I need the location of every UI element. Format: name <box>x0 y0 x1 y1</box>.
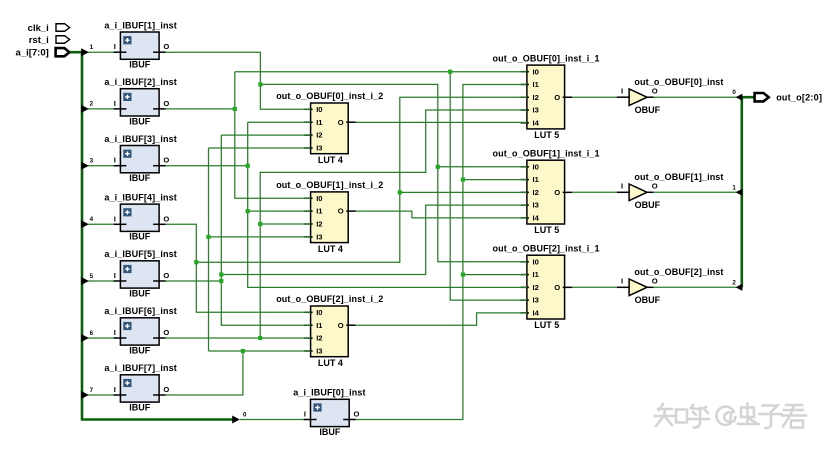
svg-text:1: 1 <box>90 44 94 51</box>
wire IBUF[0] to LUT5#3.I1 <box>463 274 527 276</box>
svg-text:out_o_OBUF[0]_inst_i_2: out_o_OBUF[0]_inst_i_2 <box>276 91 383 101</box>
net LUT5#3.O to OBUF[2] input <box>572 286 617 288</box>
svg-text:O: O <box>554 93 560 102</box>
buffer a_i_IBUF[2]_inst (IBUF) <box>104 77 176 126</box>
svg-text:0: 0 <box>732 89 736 96</box>
bus tap arrow bit 3 <box>81 162 89 170</box>
wire IBUF[6] trunk <box>260 110 527 338</box>
watermark zhihu @chongzijun (light gray) <box>655 404 806 429</box>
svg-text:I3: I3 <box>316 144 322 153</box>
buffer a_i_IBUF[4]_inst (IBUF) <box>104 193 176 242</box>
wire IBUF[5] trunk <box>221 135 310 325</box>
wire IBUF[2] trunk <box>235 72 311 199</box>
wire a_i bit 1 branch to IBUF input <box>82 51 116 53</box>
buffer a_i_IBUF[1]_inst (IBUF) <box>104 20 176 69</box>
svg-text:IBUF: IBUF <box>129 232 150 242</box>
junction IBUF[5] branch <box>219 272 223 276</box>
svg-text:2: 2 <box>732 279 736 286</box>
svg-text:O: O <box>652 87 658 96</box>
svg-text:O: O <box>554 188 560 197</box>
wire IBUF[1] to LUT5#2.I0 <box>438 166 527 168</box>
svg-text:LUT 5: LUT 5 <box>534 225 559 235</box>
buffer out_o_OBUF[1]_inst (OBUF) <box>617 172 724 210</box>
svg-text:3: 3 <box>90 158 94 165</box>
svg-text:I1: I1 <box>316 207 323 216</box>
svg-text:out_o_OBUF[0]_inst_i_1: out_o_OBUF[0]_inst_i_1 <box>493 53 600 63</box>
svg-text:IBUF: IBUF <box>129 345 150 355</box>
svg-text:LUT 5: LUT 5 <box>534 320 559 330</box>
svg-text:O: O <box>354 410 360 419</box>
svg-text:OBUF: OBUF <box>635 105 661 115</box>
svg-text:out_o_OBUF[1]_inst: out_o_OBUF[1]_inst <box>634 172 723 182</box>
net a_i_IBUF[2] <box>166 72 527 300</box>
svg-text:2: 2 <box>90 101 94 108</box>
bus tap arrow bit 2 <box>81 105 89 113</box>
junction IBUF[2] at I0 row <box>448 70 452 74</box>
bus merge arrow bit 0 <box>736 94 743 101</box>
net a_i_IBUF[4] <box>166 97 527 312</box>
svg-text:IBUF: IBUF <box>129 173 150 183</box>
wire a_i bit 5 branch to IBUF input <box>82 280 116 282</box>
svg-text:I: I <box>621 182 623 191</box>
svg-text:I2: I2 <box>533 283 539 292</box>
wire a_i bit 2 branch to IBUF input <box>82 108 116 110</box>
svg-text:a_i_IBUF[6]_inst: a_i_IBUF[6]_inst <box>104 306 176 316</box>
junction IBUF[6] source <box>258 336 262 340</box>
wire a_i bus trunk (bold) <box>70 52 234 419</box>
wire IBUF[5] to LUT4#1.I2 <box>221 134 310 136</box>
svg-text:O: O <box>652 182 658 191</box>
svg-text:O: O <box>338 118 344 127</box>
svg-text:a_i_IBUF[7]_inst: a_i_IBUF[7]_inst <box>104 363 176 373</box>
junction IBUF[2] source <box>233 107 237 111</box>
wire IBUF[4] to LUT5#2.I2 <box>400 191 527 193</box>
svg-text:a_i_IBUF[3]_inst: a_i_IBUF[3]_inst <box>104 134 176 144</box>
buffer a_i_IBUF[6]_inst (IBUF) <box>104 306 176 355</box>
svg-text:I: I <box>304 410 306 419</box>
input port a_i[7:0] <box>16 48 70 59</box>
svg-text:I0: I0 <box>533 257 539 266</box>
svg-text:I: I <box>621 87 623 96</box>
svg-text:IBUF: IBUF <box>129 288 150 298</box>
svg-text:out_o_OBUF[1]_inst_i_1: out_o_OBUF[1]_inst_i_1 <box>493 148 600 158</box>
svg-text:I0: I0 <box>533 67 539 76</box>
wire out_o bus trunk (bold) <box>740 97 743 287</box>
svg-text:OBUF: OBUF <box>635 200 661 210</box>
svg-text:O: O <box>652 277 658 286</box>
junction IBUF[0] at LUT5#3.I1 <box>461 272 465 276</box>
bus tap arrow bit 7 <box>81 391 89 399</box>
wire out_o bus to port (bold) <box>741 96 755 99</box>
wire IBUF[1].O to corner <box>166 52 311 109</box>
wire IBUF[7] to LUT4#2.I3 <box>209 236 311 238</box>
svg-text:0: 0 <box>243 412 247 419</box>
wire IBUF[7] to LUT4#1.I3 <box>209 147 311 149</box>
svg-text:O: O <box>338 207 344 216</box>
svg-text:I0: I0 <box>316 194 322 203</box>
svg-text:O: O <box>163 385 169 394</box>
LUT out_o_OBUF[1]_inst_i_2 (LUT 4) <box>276 180 383 254</box>
wire a_i bit 3 branch to IBUF input <box>82 165 116 167</box>
bus tap arrow bit 0 <box>232 416 240 424</box>
junction IBUF[7] riser join <box>241 349 245 353</box>
net OBUF[2].O to out_o bus <box>654 286 742 288</box>
junction IBUF[7] at LUT4#2.I3 <box>206 235 210 239</box>
svg-text:I1: I1 <box>533 80 540 89</box>
svg-text:IBUF: IBUF <box>129 402 150 412</box>
svg-text:a_i_IBUF[5]_inst: a_i_IBUF[5]_inst <box>104 249 176 259</box>
svg-text:I0: I0 <box>316 308 322 317</box>
svg-text:LUT 5: LUT 5 <box>534 130 559 140</box>
net a_i_IBUF[5] <box>166 135 527 325</box>
wire IBUF[6] to LUT4#2.I2 <box>260 223 310 225</box>
svg-text:6: 6 <box>90 330 94 337</box>
buffer out_o_OBUF[2]_inst (OBUF) <box>617 267 724 305</box>
svg-text:I: I <box>114 156 116 165</box>
bus merge arrow bit 1 <box>736 189 743 196</box>
buffer a_i_IBUF[7]_inst (IBUF) <box>104 363 176 412</box>
svg-text:O: O <box>163 156 169 165</box>
svg-text:LUT 4: LUT 4 <box>318 155 343 165</box>
wire IBUF[3] to LUT4#2.I1 <box>248 210 311 212</box>
svg-text:O: O <box>163 42 169 51</box>
svg-text:rst_i: rst_i <box>29 35 49 46</box>
net a_i_IBUF[3] <box>166 122 527 287</box>
wire IBUF[7] row to LUT4#3.I3 <box>209 350 311 352</box>
svg-text:I: I <box>114 214 116 223</box>
net a_i_IBUF[6] <box>166 110 527 338</box>
wire IBUF[4].O to corner <box>166 224 311 312</box>
svg-text:I2: I2 <box>316 220 322 229</box>
LUT out_o_OBUF[1]_inst_i_1 (LUT 5) <box>493 148 600 235</box>
svg-text:I2: I2 <box>316 131 322 140</box>
junction IBUF[6] at LUT4#2.I2 <box>258 222 262 226</box>
svg-text:1: 1 <box>732 184 736 191</box>
svg-text:I: I <box>114 271 116 280</box>
svg-text:I1: I1 <box>533 175 540 184</box>
svg-text:a_i_IBUF[4]_inst: a_i_IBUF[4]_inst <box>104 193 176 203</box>
svg-text:I0: I0 <box>316 105 322 114</box>
wire IBUF[5] branch to LUT5#2.I3 <box>221 205 527 274</box>
net a_i_IBUF[1] <box>166 52 527 262</box>
svg-text:4: 4 <box>90 216 94 223</box>
svg-text:I4: I4 <box>533 118 540 127</box>
wire a_i bit 4 branch to IBUF input <box>82 223 116 225</box>
wire IBUF[0].O trunk <box>356 84 527 419</box>
svg-text:IBUF: IBUF <box>319 427 340 437</box>
svg-text:I2: I2 <box>316 334 322 343</box>
wire IBUF[2] drop to LUT5#3.I3 <box>450 72 527 300</box>
svg-text:O: O <box>554 283 560 292</box>
svg-text:I: I <box>114 99 116 108</box>
wire IBUF[0] to LUT5#2.I1 <box>463 179 527 181</box>
svg-text:a_i[7:0]: a_i[7:0] <box>16 48 49 59</box>
wire IBUF[6].O to LUT4#3.I2 <box>166 337 311 339</box>
net a_i_IBUF[7] <box>166 148 311 395</box>
wire a_i bit 7 branch to IBUF input <box>82 394 116 396</box>
wire IBUF[2].O to trunk <box>166 108 235 110</box>
svg-text:OBUF: OBUF <box>635 295 661 305</box>
bus merge arrow bit 2 <box>736 284 743 291</box>
junction IBUF[3] source <box>246 164 250 168</box>
svg-text:5: 5 <box>90 273 94 280</box>
svg-text:a_i_IBUF[0]_inst: a_i_IBUF[0]_inst <box>293 388 365 398</box>
svg-text:O: O <box>163 214 169 223</box>
bus tap arrow bit 1 <box>81 48 89 56</box>
net a_i_IBUF[0] <box>356 84 527 419</box>
svg-text:I: I <box>621 277 623 286</box>
svg-text:out_o_OBUF[2]_inst_i_1: out_o_OBUF[2]_inst_i_1 <box>493 243 600 253</box>
junction IBUF[1] branch <box>258 82 262 86</box>
junction IBUF[0] at LUT5#2.I1 <box>461 177 465 181</box>
wire IBUF[2] to LUT5#1.I0 <box>235 71 527 73</box>
junction IBUF[4] branch <box>194 260 198 264</box>
LUT out_o_OBUF[2]_inst_i_1 (LUT 5) <box>493 243 600 330</box>
wire IBUF[7].O to riser <box>166 351 243 395</box>
svg-text:I: I <box>114 42 116 51</box>
svg-text:I: I <box>114 385 116 394</box>
net LUT5#1.O to OBUF[0] input <box>572 96 617 98</box>
svg-text:I1: I1 <box>316 321 323 330</box>
svg-text:out_o_OBUF[0]_inst: out_o_OBUF[0]_inst <box>634 77 723 87</box>
LUT out_o_OBUF[2]_inst_i_2 (LUT 4) <box>276 294 383 368</box>
wire a_i bit 0 to IBUF[0] input <box>240 419 306 421</box>
svg-text:I3: I3 <box>533 106 539 115</box>
bus tap arrow bit 4 <box>81 220 89 228</box>
svg-text:IBUF: IBUF <box>129 116 150 126</box>
wire IBUF[3] trunk <box>248 122 527 287</box>
net LUT5#2.O to OBUF[1] input <box>572 191 617 193</box>
svg-text:O: O <box>338 321 344 330</box>
junction IBUF[5] source <box>219 279 223 283</box>
svg-text:O: O <box>163 328 169 337</box>
bus tap arrow bit 6 <box>81 334 89 342</box>
junction IBUF[1] at LUT5#2.I0 <box>436 165 440 169</box>
svg-text:out_o[2:0]: out_o[2:0] <box>776 93 822 103</box>
junction IBUF[4] at LUT5#2.I2 <box>398 190 402 194</box>
svg-text:I1: I1 <box>533 270 540 279</box>
svg-text:I1: I1 <box>316 118 323 127</box>
buffer a_i_IBUF[0]_inst (IBUF) <box>293 388 365 437</box>
wire IBUF[7] trunk <box>208 148 210 351</box>
svg-text:I0: I0 <box>533 162 539 171</box>
wire IBUF[3].O to trunk <box>166 165 248 167</box>
svg-text:I3: I3 <box>533 296 539 305</box>
svg-text:I3: I3 <box>316 347 322 356</box>
net OBUF[0].O to out_o bus <box>654 96 742 98</box>
svg-text:a_i_IBUF[2]_inst: a_i_IBUF[2]_inst <box>104 77 176 87</box>
svg-text:LUT 4: LUT 4 <box>318 244 343 254</box>
output port out_o[2:0] <box>755 93 823 103</box>
svg-text:O: O <box>163 271 169 280</box>
input port rst_i <box>29 35 70 46</box>
svg-text:O: O <box>163 99 169 108</box>
buffer a_i_IBUF[5]_inst (IBUF) <box>104 249 176 298</box>
wire IBUF[3] to LUT4#1.I1 <box>248 121 311 123</box>
svg-text:I4: I4 <box>533 309 540 318</box>
junction IBUF[3] at LUT4#2.I1 <box>246 209 250 213</box>
wire IBUF[5].O to trunk <box>166 280 222 282</box>
svg-text:I4: I4 <box>533 214 540 223</box>
LUT out_o_OBUF[0]_inst_i_1 (LUT 5) <box>493 53 600 140</box>
input port clk_i <box>28 23 70 34</box>
svg-text:I3: I3 <box>533 201 539 210</box>
net OBUF[1].O to out_o bus <box>654 191 742 193</box>
svg-text:LUT 4: LUT 4 <box>318 358 343 368</box>
svg-text:I3: I3 <box>316 233 322 242</box>
net LUT4#3.O to LUT5#3.I4 <box>356 313 527 325</box>
wire a_i bit 6 branch to IBUF input <box>82 337 116 339</box>
svg-text:clk_i: clk_i <box>28 23 49 34</box>
svg-text:out_o_OBUF[2]_inst: out_o_OBUF[2]_inst <box>634 267 723 277</box>
svg-text:I: I <box>114 328 116 337</box>
net LUT4#2.O to LUT5#2.I4 <box>356 211 527 218</box>
bus tap arrow bit 5 <box>81 277 89 285</box>
wire IBUF[1] branch to LUT5 I0 column <box>260 84 527 261</box>
svg-text:a_i_IBUF[1]_inst: a_i_IBUF[1]_inst <box>104 20 176 30</box>
LUT out_o_OBUF[0]_inst_i_2 (LUT 4) <box>276 91 383 165</box>
net LUT4#1.O to LUT5#1.I4 <box>356 121 527 123</box>
buffer a_i_IBUF[3]_inst (IBUF) <box>104 134 176 183</box>
svg-text:out_o_OBUF[1]_inst_i_2: out_o_OBUF[1]_inst_i_2 <box>276 180 383 190</box>
svg-text:I2: I2 <box>533 188 539 197</box>
buffer out_o_OBUF[0]_inst (OBUF) <box>617 77 724 115</box>
svg-text:7: 7 <box>90 387 94 394</box>
svg-text:I2: I2 <box>533 93 539 102</box>
wire IBUF[4] branch to riser <box>196 97 527 262</box>
svg-text:IBUF: IBUF <box>129 60 150 70</box>
svg-text:out_o_OBUF[2]_inst_i_2: out_o_OBUF[2]_inst_i_2 <box>276 294 383 304</box>
